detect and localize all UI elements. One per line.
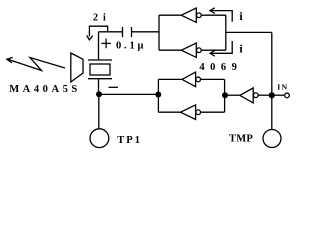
svg-text:IN: IN [277,82,288,91]
svg-text:MA40A5S: MA40A5S [9,84,81,95]
svg-text:4069: 4069 [199,62,242,73]
svg-text:TP1: TP1 [117,135,142,146]
svg-text:0.1μ: 0.1μ [116,40,146,51]
svg-text:2i: 2i [93,13,111,24]
svg-text:TMP: TMP [229,134,253,145]
